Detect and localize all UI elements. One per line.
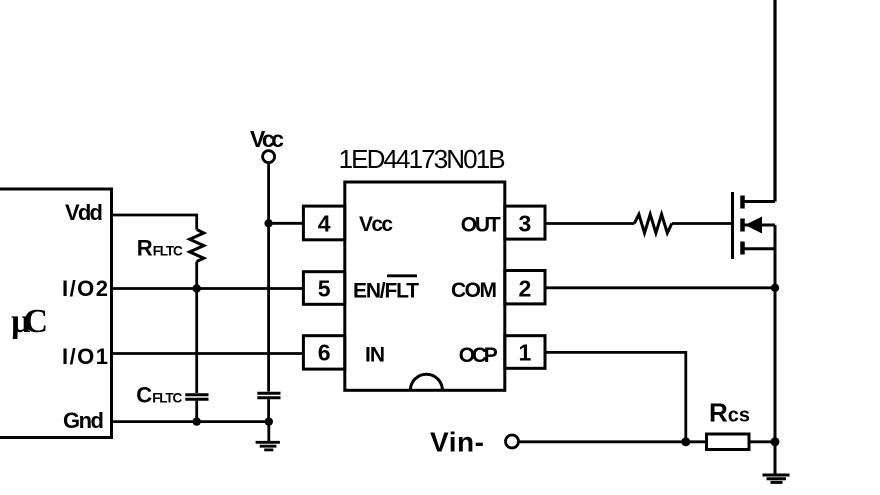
wire Vdd to RFLTC top [112, 215, 197, 230]
resistor RFLTC [190, 230, 204, 262]
resistor R2 (gate) [634, 214, 672, 233]
svg-text:3: 3 [519, 210, 532, 236]
wire I/O1 to pin 6 [112, 352, 304, 355]
label 1ED44173N01B [339, 144, 506, 174]
IC pin name OCP [459, 344, 498, 367]
node Rcs-ground junction [771, 437, 780, 446]
IC pin name Vcc [359, 213, 393, 236]
wire Vcc to pin 4 [269, 222, 304, 225]
pin 5 box [303, 272, 344, 305]
wire COM node down to Rcs node [774, 288, 777, 442]
svg-text:I/O1: I/O1 [62, 344, 108, 369]
svg-text:1ED44173N01B: 1ED44173N01B [339, 144, 506, 174]
IC pin name OUT [461, 214, 501, 237]
wire Vcc vertical [267, 163, 270, 392]
wire pin 1 OCP right and down [545, 352, 686, 441]
svg-text:1: 1 [519, 340, 532, 366]
wire Gnd line [112, 420, 269, 423]
IC bottom notch [410, 374, 442, 390]
pin 3 box [505, 206, 545, 239]
op-amp U1: gate driver IC 1ED44173N01B body [345, 182, 505, 390]
node Vcc-pin4 junction [264, 219, 272, 227]
wire pin 3 to gate resistor [545, 222, 634, 225]
label RFLTC [137, 236, 183, 261]
pin 1 box [505, 336, 545, 369]
wire Vin- to OCP node [519, 440, 686, 443]
capacitor CFLTC [185, 395, 208, 400]
label Rcs [709, 398, 750, 428]
label Vin- [430, 427, 484, 458]
pin 4 box [303, 206, 344, 240]
svg-text:Vin-: Vin- [430, 427, 484, 458]
microcontroller U2 (µC block) [0, 189, 112, 438]
svg-text:EN/FLT: EN/FLT [353, 280, 419, 303]
node I/O2-RFLTC junction [193, 284, 201, 292]
svg-text:2: 2 [519, 275, 532, 301]
wire I/O2 to pin 5 [112, 287, 304, 290]
node COM-source junction [771, 284, 779, 292]
svg-text:OCP: OCP [459, 344, 498, 367]
pin label I/O1 [62, 344, 108, 369]
svg-text:Gnd: Gnd [63, 408, 104, 433]
label CFLTC [136, 383, 182, 408]
svg-text:6: 6 [318, 340, 331, 366]
wire source down to COM node [774, 225, 777, 288]
svg-text:OUT: OUT [461, 214, 501, 237]
wire I/O2 node down to CFLTC [195, 289, 198, 394]
ground (left) [256, 422, 280, 450]
wire pin 2 COM to source node [545, 286, 775, 289]
svg-text:Vcc: Vcc [250, 126, 284, 152]
svg-text:5: 5 [318, 275, 331, 301]
svg-text:4: 4 [318, 210, 331, 236]
wire drain up [773, 0, 776, 202]
pin label I/O2 [62, 276, 108, 301]
transistor Q1 (N-MOSFET) [733, 192, 776, 259]
svg-text:µC: µC [11, 303, 48, 340]
pin label Vdd [65, 200, 103, 225]
IC pin name EN/FLT [353, 276, 419, 303]
wire C2 bottom to Gnd node [267, 399, 270, 421]
ground (right) [763, 442, 790, 483]
svg-text:I/O2: I/O2 [62, 276, 108, 301]
IC pin name IN [365, 344, 385, 367]
terminal Vcc [263, 151, 275, 163]
pin 6 box [303, 336, 344, 369]
svg-text:Vcc: Vcc [359, 213, 393, 236]
terminal Vin- [506, 435, 519, 448]
svg-text:COM: COM [451, 279, 497, 302]
wire Rcs to ground node [749, 440, 775, 443]
IC pin name COM [451, 279, 497, 302]
wire CFLTC bottom to Gnd line [195, 401, 198, 422]
pin label Gnd [63, 408, 104, 433]
wire gate resistor to MOSFET gate [672, 222, 733, 225]
svg-text:IN: IN [365, 344, 385, 367]
node Gnd-Cvcc junction [265, 417, 273, 425]
label Vcc supply [250, 126, 284, 152]
capacitor C2 (Vcc decoupling) [257, 393, 280, 398]
wire OCP node to Rcs [686, 440, 707, 443]
node Gnd-CFLTC junction [193, 417, 201, 425]
pin 2 box [505, 271, 545, 304]
svg-text:Vdd: Vdd [65, 200, 103, 225]
resistor Rcs [707, 434, 750, 450]
wire RFLTC bottom to I/O2 node [195, 262, 198, 289]
node OCP-Vin junction [681, 437, 690, 446]
